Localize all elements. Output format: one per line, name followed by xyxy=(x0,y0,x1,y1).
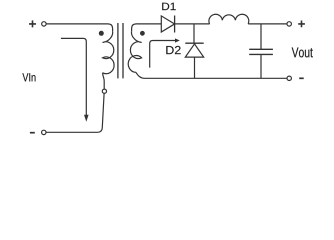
label Vout xyxy=(292,48,313,58)
wire inductor to output + xyxy=(248,23,287,25)
input minus sign xyxy=(30,132,35,134)
capacitor C1 top lead xyxy=(260,24,262,49)
arrowhead B xyxy=(175,38,180,42)
wire D1 to inductor xyxy=(175,23,210,25)
output + terminal xyxy=(287,22,291,26)
bottom input rail xyxy=(46,131,98,133)
wire input + to primary top xyxy=(46,24,113,31)
diode D2 triangle xyxy=(185,44,203,57)
label D1 xyxy=(162,3,176,10)
input plus sign xyxy=(29,20,36,27)
primary phasing dot xyxy=(99,31,104,36)
secondary top lead to D1 xyxy=(132,24,162,31)
capacitor C1 bottom lead xyxy=(260,54,262,78)
switch blade xyxy=(98,93,105,132)
switch contact circle xyxy=(102,89,106,93)
inductor L1 xyxy=(209,14,249,24)
arrowhead A xyxy=(84,115,89,122)
primary winding bottom lead xyxy=(103,73,105,89)
diode D1 cathode bar xyxy=(174,16,176,33)
output minus sign xyxy=(299,77,304,79)
bottom output rail xyxy=(145,77,287,79)
secondary phasing dot xyxy=(140,31,145,36)
transformer core xyxy=(118,23,123,78)
capacitor C1 plates xyxy=(249,49,273,54)
output plus sign xyxy=(298,21,305,28)
control arrow A (switch drive) xyxy=(61,38,86,115)
label VIn xyxy=(22,73,35,81)
wire D2 anode to bottom rail xyxy=(194,57,196,78)
diode D2 cathode bar xyxy=(185,42,203,44)
current arrow B (secondary) xyxy=(150,41,176,68)
diode D1 triangle xyxy=(161,16,174,32)
primary winding W1 xyxy=(103,31,114,73)
wire junction to D2 xyxy=(193,24,195,43)
input + terminal xyxy=(42,22,46,26)
secondary winding W2 xyxy=(128,31,144,78)
output - terminal xyxy=(287,76,291,80)
input - terminal xyxy=(42,130,46,134)
label D2 xyxy=(166,46,180,54)
